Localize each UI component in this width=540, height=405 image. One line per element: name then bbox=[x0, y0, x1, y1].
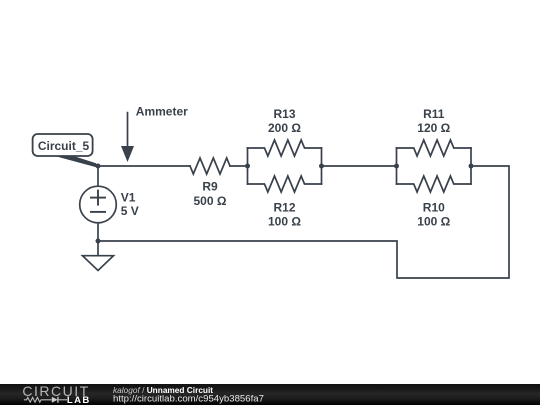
wire parallel box 1 left stub bbox=[247, 148, 249, 184]
svg-text:100 Ω: 100 Ω bbox=[417, 215, 450, 229]
label callout Circuit_5 box bbox=[33, 134, 93, 156]
logo diode bbox=[52, 397, 58, 403]
node B junction bbox=[245, 164, 250, 169]
wire return loop right bbox=[98, 166, 509, 278]
svg-text:Ammeter: Ammeter bbox=[136, 105, 188, 119]
wire node C to node D bbox=[322, 165, 397, 167]
svg-text:R9: R9 bbox=[202, 179, 218, 193]
svg-text:R13: R13 bbox=[273, 107, 295, 121]
footer bar bbox=[0, 384, 540, 405]
wire node F to ground bbox=[97, 241, 99, 256]
svg-text:120 Ω: 120 Ω bbox=[417, 121, 450, 135]
svg-text:http://circuitlab.com/c954yb38: http://circuitlab.com/c954yb3856fa7 bbox=[113, 394, 264, 405]
wire V1 bottom to node F bbox=[97, 223, 99, 241]
svg-text:V1: V1 bbox=[121, 191, 136, 205]
resistor R9 bbox=[190, 158, 230, 174]
node C junction bbox=[319, 164, 324, 169]
node D junction bbox=[394, 164, 399, 169]
wire parallel box 2 right stub bbox=[470, 148, 472, 184]
voltage source V1 bbox=[80, 186, 117, 223]
node A junction bbox=[96, 164, 101, 169]
wire parallel box 1 right stub bbox=[321, 148, 323, 184]
label callout Circuit_5 tail bbox=[51, 155, 99, 168]
node F junction bbox=[96, 239, 101, 244]
svg-text:R10: R10 bbox=[423, 201, 445, 215]
ground bbox=[83, 256, 114, 271]
resistor R13 bbox=[248, 140, 322, 156]
svg-text:R11: R11 bbox=[423, 107, 445, 121]
V1 minus sign bbox=[90, 211, 106, 213]
svg-text:500 Ω: 500 Ω bbox=[194, 194, 227, 208]
svg-text:100 Ω: 100 Ω bbox=[268, 215, 301, 229]
node E junction bbox=[469, 164, 474, 169]
ammeter probe arrow line bbox=[127, 113, 129, 147]
resistor R11 bbox=[397, 140, 472, 156]
wire R9 to node B bbox=[230, 165, 248, 167]
resistor R10 bbox=[397, 176, 472, 192]
wire main from node A to R9 bbox=[98, 165, 190, 167]
V1 plus sign bbox=[90, 190, 106, 212]
svg-text:Circuit_5: Circuit_5 bbox=[38, 139, 90, 153]
svg-text:200 Ω: 200 Ω bbox=[268, 121, 301, 135]
svg-text:5 V: 5 V bbox=[121, 204, 139, 218]
logo resistor zigzag bbox=[24, 397, 52, 402]
ammeter probe arrowhead bbox=[121, 146, 134, 162]
svg-text:R12: R12 bbox=[273, 201, 295, 215]
svg-text:LAB: LAB bbox=[67, 395, 91, 405]
wire parallel box 2 left stub bbox=[396, 148, 398, 184]
resistor R12 bbox=[248, 176, 322, 192]
wire node A to V1 top bbox=[97, 166, 99, 186]
